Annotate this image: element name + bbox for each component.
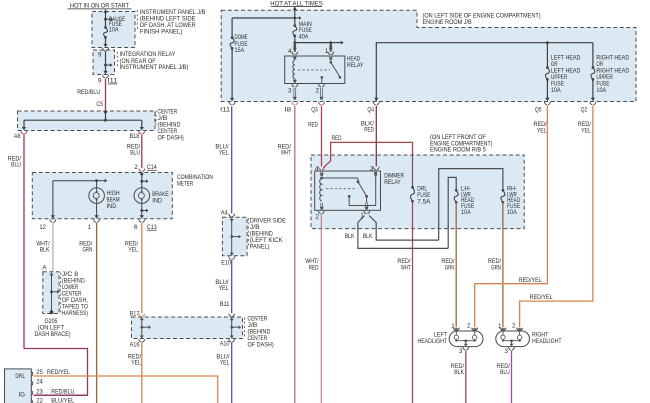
svg-text:RELAY: RELAY: [384, 179, 400, 186]
svg-text:1: 1: [88, 224, 92, 231]
svg-text:Q5: Q5: [535, 107, 542, 114]
svg-text:A10: A10: [220, 340, 230, 347]
svg-text:E10: E10: [221, 259, 231, 266]
svg-text:B11: B11: [220, 301, 230, 308]
svg-text:12: 12: [39, 224, 46, 231]
svg-text:3: 3: [288, 88, 292, 95]
svg-text:ENGINE ROOM J/B: ENGINE ROOM J/B: [423, 19, 472, 26]
svg-text:2: 2: [134, 164, 138, 171]
svg-text:9: 9: [98, 78, 102, 85]
svg-text:GRN: GRN: [491, 264, 501, 271]
svg-text:YEL: YEL: [537, 128, 547, 135]
svg-text:1: 1: [325, 48, 329, 55]
svg-text:6: 6: [134, 224, 138, 231]
svg-text:1: 1: [498, 323, 502, 330]
svg-text:HARNESS): HARNESS): [62, 310, 88, 317]
svg-text:YEL: YEL: [219, 150, 229, 157]
svg-text:15A: 15A: [235, 47, 246, 54]
svg-text:25: 25: [36, 369, 43, 376]
svg-text:10A: 10A: [551, 87, 562, 94]
svg-text:Q3: Q3: [311, 106, 318, 113]
svg-text:BLK: BLK: [345, 233, 356, 240]
svg-text:BLK: BLK: [363, 233, 374, 240]
svg-text:1: 1: [451, 323, 455, 330]
svg-text:BLK: BLK: [40, 247, 51, 254]
svg-text:PANEL): PANEL): [250, 244, 270, 251]
svg-text:BLU: BLU: [500, 369, 510, 376]
svg-text:Q2: Q2: [581, 107, 588, 114]
svg-text:A4: A4: [221, 210, 228, 217]
svg-text:RED: RED: [308, 121, 318, 128]
svg-text:2: 2: [512, 323, 516, 330]
svg-text:WHT: WHT: [281, 150, 291, 157]
svg-text:OF DASH): OF DASH): [248, 342, 274, 349]
svg-text:24: 24: [36, 379, 43, 386]
svg-text:3: 3: [370, 165, 374, 172]
svg-text:2: 2: [316, 213, 320, 220]
svg-text:ENGINE ROOM R/B 5: ENGINE ROOM R/B 5: [430, 147, 486, 154]
svg-text:BLU: BLU: [11, 162, 21, 169]
svg-text:2: 2: [467, 323, 471, 330]
svg-text:DASH BRACE): DASH BRACE): [34, 331, 70, 338]
svg-text:2: 2: [316, 88, 320, 95]
svg-text:Q4: Q4: [367, 106, 374, 113]
svg-text:22: 22: [36, 398, 43, 403]
svg-text:METER: METER: [177, 180, 194, 187]
svg-text:HEADLIGHT: HEADLIGHT: [532, 338, 562, 345]
svg-text:B17: B17: [130, 310, 140, 317]
svg-text:A8: A8: [14, 133, 21, 140]
svg-text:RED: RED: [364, 127, 374, 134]
svg-text:BLK: BLK: [454, 369, 465, 376]
svg-text:C5: C5: [96, 101, 103, 108]
svg-text:BLU/YEL: BLU/YEL: [51, 398, 75, 403]
svg-text:I8: I8: [284, 106, 291, 113]
svg-text:9: 9: [98, 52, 102, 59]
svg-text:I11: I11: [220, 106, 230, 113]
svg-text:YEL: YEL: [220, 360, 230, 367]
svg-text:BLU: BLU: [130, 150, 140, 157]
svg-text:3: 3: [505, 348, 509, 355]
svg-text:YEL: YEL: [131, 360, 141, 367]
svg-text:10A: 10A: [507, 209, 518, 216]
svg-text:GRN: GRN: [445, 264, 455, 271]
svg-text:RED/YEL: RED/YEL: [47, 369, 70, 376]
svg-text:7.5A: 7.5A: [417, 199, 431, 206]
svg-text:YEL: YEL: [219, 285, 229, 292]
svg-text:IND: IND: [152, 197, 162, 204]
svg-text:4: 4: [288, 48, 292, 55]
svg-text:RED/YEL: RED/YEL: [519, 277, 542, 284]
svg-text:WHT: WHT: [401, 264, 411, 271]
svg-text:FINISH PANEL): FINISH PANEL): [140, 28, 183, 35]
svg-text:RED/BLU: RED/BLU: [51, 388, 74, 395]
svg-text:IND: IND: [107, 203, 117, 210]
svg-text:IG: IG: [18, 391, 25, 398]
svg-text:RED: RED: [309, 264, 319, 271]
svg-text:I11: I11: [108, 78, 118, 85]
svg-text:RED/BLU: RED/BLU: [77, 89, 100, 96]
svg-text:YEL: YEL: [128, 247, 138, 254]
svg-text:YEL: YEL: [581, 128, 591, 135]
svg-text:OF DASH): OF DASH): [158, 134, 184, 141]
svg-text:4: 4: [315, 165, 319, 172]
svg-text:INSTRUMENT PANEL J/B): INSTRUMENT PANEL J/B): [120, 64, 189, 71]
svg-text:RED/YEL: RED/YEL: [530, 294, 553, 301]
svg-text:10A: 10A: [109, 27, 120, 34]
svg-text:3: 3: [459, 348, 463, 355]
svg-text:10A: 10A: [461, 209, 472, 216]
svg-text:40A: 40A: [299, 33, 310, 40]
svg-text:B18: B18: [130, 133, 140, 140]
svg-text:DRL: DRL: [15, 373, 25, 380]
svg-text:RELAY: RELAY: [347, 62, 363, 69]
svg-text:HEADLIGHT: HEADLIGHT: [418, 338, 448, 345]
svg-text:GRN: GRN: [83, 247, 93, 254]
svg-text:A16: A16: [130, 342, 140, 349]
svg-text:10A: 10A: [596, 87, 607, 94]
svg-text:23: 23: [36, 388, 43, 395]
svg-text:1: 1: [360, 213, 364, 220]
svg-text:RED: RED: [332, 135, 342, 142]
